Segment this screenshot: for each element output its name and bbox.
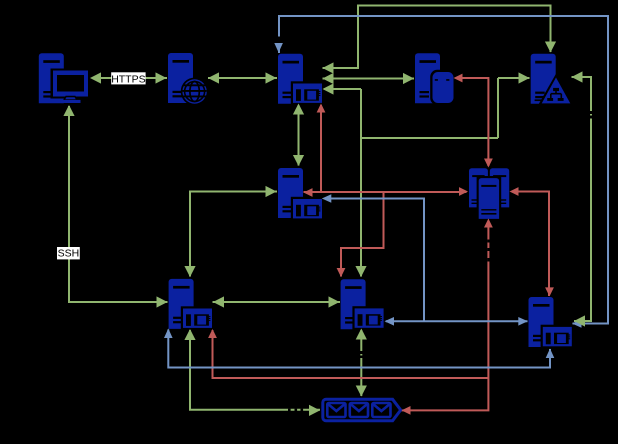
mail queue	[323, 399, 401, 420]
wire webserver-appserver	[208, 77, 277, 79]
wire midserver-bottomleft server	[190, 192, 277, 277]
web server	[168, 53, 209, 105]
wire bottomleft server to mail queue	[190, 330, 320, 410]
wire ADserver right to bottom-right server	[572, 77, 592, 321]
wire bottomcenter server to mail queue	[360, 329, 362, 396]
server cluster	[467, 166, 512, 221]
wire appserver-ADserver left route	[323, 78, 530, 277]
application server	[278, 54, 324, 105]
wire blue appserver to bottom-right server	[279, 16, 608, 324]
wire appserver-dbserver	[323, 78, 415, 80]
wire blue midserver to bottom servers	[323, 199, 528, 322]
salmon arrowheads	[208, 74, 554, 415]
label notches (black text crossing wires)	[278, 37, 592, 412]
bottom-left server	[169, 279, 215, 330]
label SSH	[57, 247, 80, 260]
wire dbserver to mail queue (salmon bus)	[402, 78, 489, 410]
middle application server	[278, 168, 324, 221]
wire SSH desktop-bottomleft server	[69, 106, 168, 302]
green arrowheads	[63, 42, 585, 417]
wire blue bottomleft to bottomright server	[168, 330, 550, 368]
bottom-center server	[341, 279, 386, 330]
svg-text:SSH: SSH	[58, 248, 80, 260]
wire appserver-midserver vertical	[298, 104, 300, 166]
label HTTPS	[111, 72, 145, 85]
wire salmon branch to bottomcenter server	[341, 192, 384, 277]
wire bottomleft-bottomcenter server	[213, 301, 341, 303]
database server	[415, 53, 456, 105]
wire bottomleft server to salmon bus	[213, 330, 489, 379]
blue arrowheads	[164, 43, 582, 358]
wire HTTPS desktop-webserver	[92, 77, 167, 79]
bottom-right server	[529, 297, 575, 348]
wire cluster right to bottom-right server	[510, 192, 550, 297]
svg-text:HTTPS: HTTPS	[111, 73, 145, 85]
wire appserver-ADserver top route	[323, 6, 551, 69]
desktop client PC	[39, 53, 91, 103]
wire appserver rack to midserver and cluster	[304, 104, 469, 193]
Active Directory server	[531, 54, 574, 105]
